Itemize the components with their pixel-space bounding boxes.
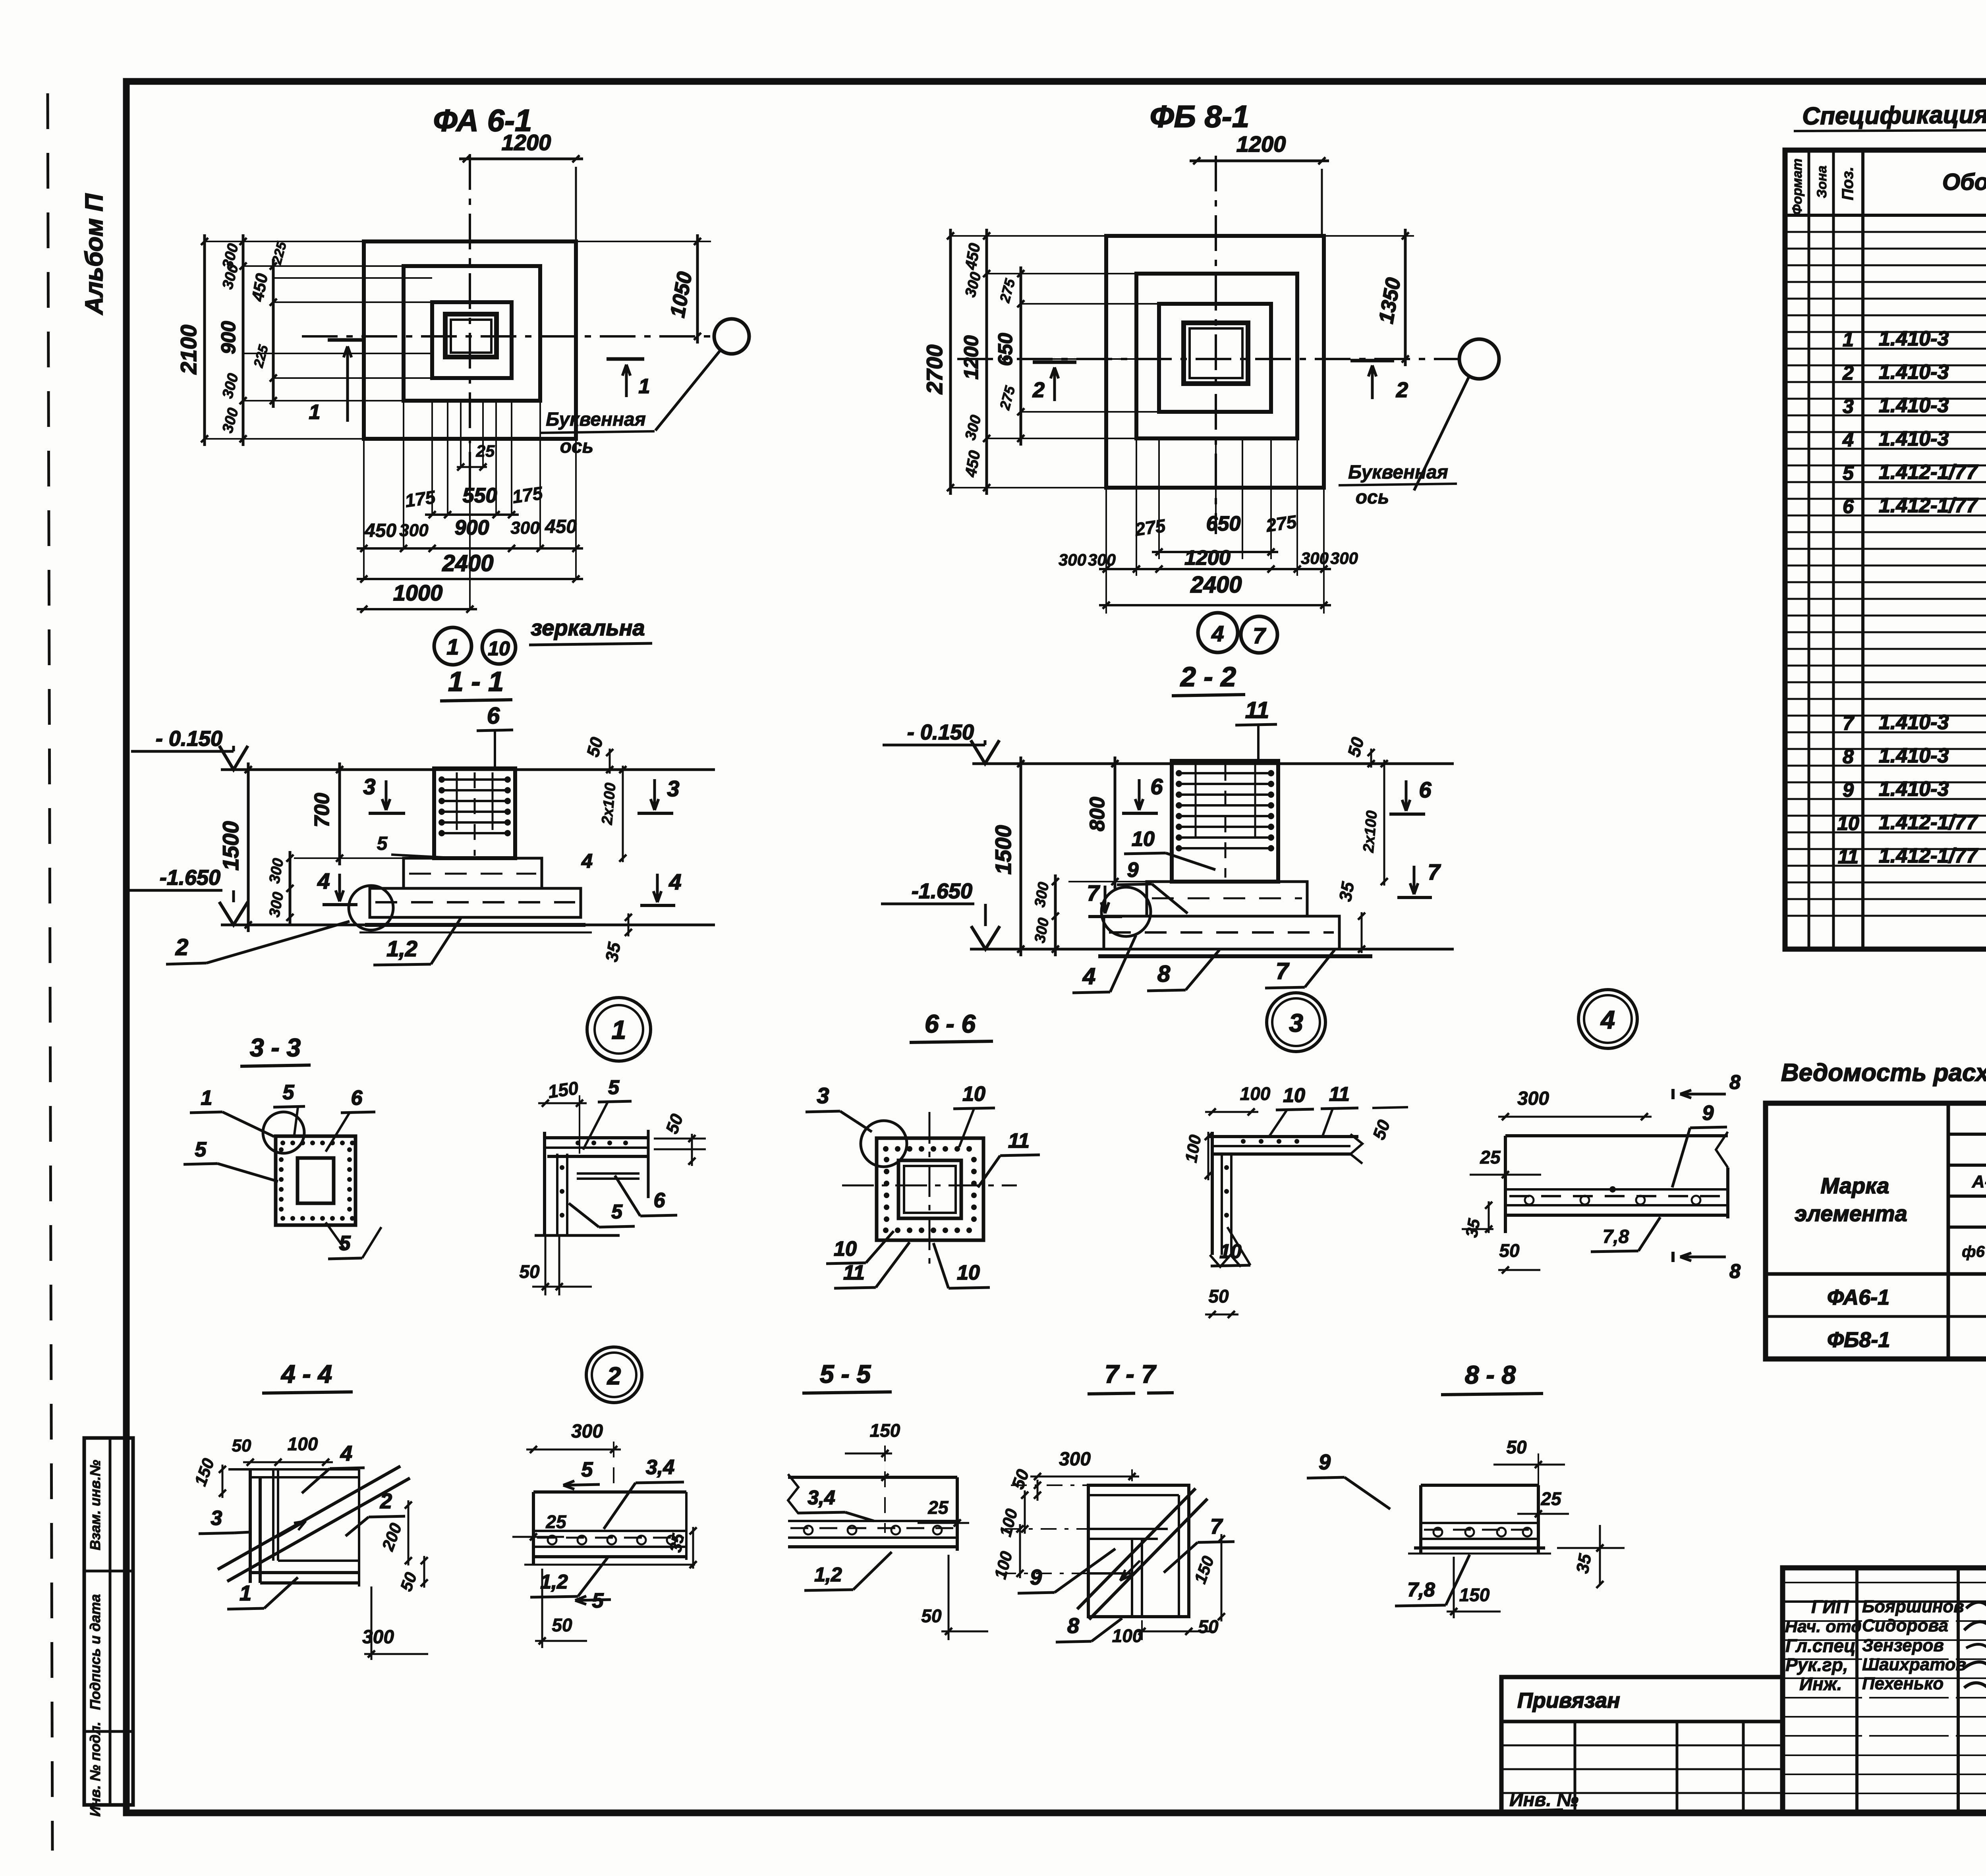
svg-text:2 - 2: 2 - 2	[1180, 661, 1236, 692]
svg-text:25: 25	[1540, 1488, 1562, 1509]
detail 4 section mark 8 bottom	[1671, 1252, 1675, 1262]
svg-text:Марка: Марка	[1821, 1173, 1889, 1198]
svg-text:100: 100	[1240, 1083, 1271, 1104]
svg-text:4 - 4: 4 - 4	[280, 1360, 332, 1388]
svg-text:50: 50	[519, 1261, 540, 1282]
section 1-1 dim 1500	[247, 762, 250, 932]
signature table row lines	[1783, 1582, 1986, 1583]
svg-text:Шаихратов: Шаихратов	[1862, 1655, 1966, 1674]
plan FB8-1 left dim line 3	[1020, 266, 1022, 446]
plan FB8-1 dim 2700	[949, 229, 952, 495]
plan FA6-1 dim 1050 right	[576, 241, 711, 242]
svg-text:Рук.гр,: Рук.гр,	[1785, 1654, 1848, 1675]
plan FB8-1 section mark 2 right	[1350, 359, 1394, 363]
svg-text:Сидорова: Сидорова	[1862, 1616, 1948, 1635]
svg-text:1: 1	[309, 401, 321, 424]
section 2-2 detail circle	[1101, 887, 1151, 936]
svg-text:-1.650: -1.650	[912, 879, 972, 903]
signature scribble 5	[1964, 1683, 1986, 1694]
svg-text:1500: 1500	[218, 821, 243, 871]
steel table marka cell	[1947, 1103, 1950, 1359]
svg-text:1: 1	[201, 1087, 213, 1110]
detail 2 mesh circles	[548, 1536, 556, 1544]
svg-text:1200: 1200	[960, 335, 982, 379]
svg-text:10: 10	[1283, 1084, 1305, 1106]
plan FA6-1 left extension lines	[205, 241, 364, 242]
svg-text:450: 450	[364, 520, 396, 541]
svg-text:Взам. инв.№: Взам. инв.№	[87, 1460, 103, 1550]
svg-text:10: 10	[962, 1083, 985, 1106]
plan FA6-1 vertical axis	[469, 154, 471, 496]
svg-text:7 - 7: 7 - 7	[1105, 1360, 1157, 1388]
svg-text:50: 50	[1499, 1240, 1520, 1261]
svg-text:10: 10	[957, 1261, 980, 1284]
svg-text:11: 11	[843, 1261, 865, 1284]
section 4-4 mesh corner drawing	[249, 1469, 252, 1583]
svg-text:700: 700	[311, 793, 334, 828]
svg-text:50: 50	[552, 1615, 572, 1635]
svg-text:1.410-3: 1.410-3	[1879, 778, 1949, 801]
svg-text:2: 2	[1032, 378, 1045, 402]
section 8-8 slab drawing	[1421, 1484, 1538, 1487]
svg-text:6: 6	[1150, 774, 1163, 799]
svg-text:ФБ8-1: ФБ8-1	[1827, 1328, 1890, 1352]
svg-text:50: 50	[232, 1436, 251, 1455]
svg-text:ф6: ф6	[1962, 1243, 1985, 1260]
plan FA6-1 section mark 1 right	[607, 357, 644, 361]
detail 4 slab drawing	[1505, 1134, 1728, 1137]
svg-text:5: 5	[1843, 462, 1854, 484]
svg-text:1.410-3: 1.410-3	[1879, 394, 1949, 417]
svg-text:4: 4	[581, 850, 593, 872]
svg-text:2: 2	[1396, 378, 1408, 402]
signature table columns	[1855, 1568, 1858, 1813]
svg-text:Формат: Формат	[1790, 158, 1805, 215]
svg-text:1,2: 1,2	[386, 936, 417, 961]
svg-text:Гл.спец: Гл.спец	[1785, 1635, 1856, 1656]
svg-text:7: 7	[1843, 712, 1855, 734]
section 4-4 diagonal bars	[218, 1466, 400, 1569]
svg-text:35: 35	[1573, 1552, 1595, 1575]
svg-text:800: 800	[1086, 797, 1109, 832]
plan FA6-1 axis circle 1	[434, 627, 471, 665]
svg-text:5 - 5: 5 - 5	[820, 1360, 871, 1388]
detail 1 rebar dots	[576, 1141, 580, 1145]
svg-text:3: 3	[1289, 1009, 1303, 1037]
svg-text:3,4: 3,4	[646, 1456, 674, 1479]
plan FB8-1 dim 1350 right	[1404, 229, 1407, 366]
svg-text:3,4: 3,4	[808, 1486, 835, 1509]
signature scribble 4	[1964, 1661, 1986, 1672]
svg-text:3: 3	[1843, 395, 1854, 417]
svg-text:Инж.: Инж.	[1799, 1673, 1842, 1694]
svg-text:4: 4	[340, 1442, 352, 1465]
svg-text:1 - 1: 1 - 1	[448, 666, 504, 697]
plan FB8-1 axis circle	[1459, 339, 1499, 379]
plan FB8-1 column	[1184, 323, 1248, 384]
svg-text:35: 35	[602, 941, 624, 963]
svg-text:элемента: элемента	[1795, 1201, 1907, 1226]
svg-text:25: 25	[476, 442, 495, 460]
spec table header row line	[1785, 214, 1986, 217]
section 1-1 bottom slab	[370, 888, 581, 917]
svg-text:2400: 2400	[1190, 572, 1242, 598]
svg-text:9: 9	[1127, 859, 1139, 882]
svg-text:7: 7	[1253, 623, 1266, 648]
svg-text:175: 175	[404, 486, 437, 511]
svg-text:5: 5	[608, 1076, 620, 1098]
svg-text:1500: 1500	[991, 825, 1016, 875]
svg-text:100: 100	[288, 1434, 318, 1454]
svg-text:Бояршинов: Бояршинов	[1862, 1597, 1964, 1616]
svg-text:2: 2	[607, 1363, 621, 1390]
section 2-2 bottom slab	[1104, 916, 1339, 949]
spec table outer border	[1785, 150, 1986, 949]
svg-text:25: 25	[545, 1511, 567, 1532]
plan FA6-1 section mark 1 left	[328, 338, 365, 342]
detail 1 drawing wall lines	[543, 1132, 546, 1235]
svg-text:11: 11	[1245, 697, 1269, 723]
svg-text:5: 5	[195, 1138, 207, 1161]
svg-text:1200: 1200	[1184, 546, 1231, 569]
svg-text:11: 11	[1008, 1129, 1030, 1152]
svg-text:3: 3	[363, 774, 375, 799]
section 1-1 dims 300 300	[289, 851, 292, 924]
svg-text:650: 650	[994, 333, 1016, 366]
plan FB8-1 extension lines below	[1105, 488, 1107, 614]
svg-text:9: 9	[1319, 1450, 1331, 1474]
binding edge dashed line left	[48, 93, 52, 1851]
svg-text:25: 25	[1480, 1147, 1501, 1168]
detail 2 bubble	[586, 1347, 642, 1403]
svg-text:4: 4	[668, 869, 681, 894]
svg-text:Буквенная: Буквенная	[546, 409, 646, 430]
section 6-6 rebar dots	[883, 1146, 889, 1152]
svg-text:300: 300	[1088, 550, 1116, 569]
svg-text:150: 150	[547, 1077, 580, 1102]
svg-text:6 - 6: 6 - 6	[925, 1009, 976, 1038]
signature scribble 3	[1966, 1644, 1986, 1652]
svg-text:9: 9	[1702, 1102, 1714, 1125]
svg-text:1: 1	[639, 375, 650, 398]
svg-text:900: 900	[217, 321, 240, 354]
svg-text:1.412-1/77: 1.412-1/77	[1879, 494, 1978, 517]
section 6-6 corner detail circle	[861, 1121, 907, 1167]
svg-text:300: 300	[1059, 550, 1086, 569]
svg-text:300: 300	[1301, 549, 1329, 567]
plan FB8-1 axis circle 7	[1241, 616, 1277, 653]
svg-text:900: 900	[455, 516, 489, 539]
plan FB8-1 middle square	[1136, 274, 1297, 438]
svg-text:Пехенько: Пехенько	[1862, 1674, 1943, 1693]
svg-text:1.412-1/77: 1.412-1/77	[1879, 844, 1978, 867]
plan FA6-1 axis leader line	[655, 351, 720, 430]
plan FB8-1 axis circle 4	[1198, 613, 1238, 652]
section 3-3 rebar dots	[280, 1141, 285, 1145]
svg-text:2400: 2400	[442, 550, 493, 576]
signature scribble 2	[1964, 1619, 1986, 1633]
svg-text:7,8: 7,8	[1603, 1226, 1629, 1247]
plan FA6-1 dim 2100 left	[203, 234, 206, 446]
section 2-2 dim 800	[1114, 757, 1117, 889]
detail 3 bubble	[1267, 993, 1325, 1052]
section 5-5 mesh circles	[804, 1526, 813, 1534]
plan FA6-1 column	[445, 314, 496, 357]
svg-text:7,8: 7,8	[1407, 1579, 1435, 1601]
svg-text:4: 4	[1842, 428, 1854, 451]
svg-text:100: 100	[1112, 1625, 1143, 1646]
detail 4 section mark 8 top	[1671, 1089, 1675, 1099]
svg-text:1.410-3: 1.410-3	[1879, 327, 1949, 350]
svg-text:550: 550	[463, 484, 497, 507]
svg-text:3: 3	[817, 1083, 829, 1108]
section 6-6 square	[877, 1138, 983, 1240]
svg-text:10: 10	[1837, 812, 1859, 834]
svg-text:275: 275	[1133, 515, 1167, 540]
section 2-2 subbase line	[1098, 954, 1372, 958]
detail 4 bubble	[1578, 990, 1637, 1048]
svg-text:300: 300	[362, 1627, 394, 1648]
svg-text:5: 5	[582, 1458, 593, 1481]
svg-text:10: 10	[1132, 828, 1155, 851]
svg-text:ФА6-1: ФА6-1	[1827, 1285, 1889, 1309]
svg-text:8: 8	[1729, 1260, 1741, 1282]
section 1-1 column mesh	[442, 778, 508, 781]
title block outer border	[1783, 1568, 1986, 1813]
svg-text:7: 7	[1428, 859, 1441, 884]
svg-text:300: 300	[571, 1421, 603, 1442]
detail 3 rebar dots	[1241, 1139, 1246, 1144]
svg-text:зеркальна: зеркальна	[531, 615, 645, 640]
svg-text:Привязан: Привязан	[1517, 1689, 1620, 1712]
svg-text:2: 2	[175, 934, 188, 960]
svg-text:1,2: 1,2	[540, 1571, 568, 1593]
section 3-3 square	[276, 1136, 355, 1225]
detail 3 wall lines	[1211, 1132, 1214, 1255]
steel table outer border	[1766, 1103, 1986, 1359]
plan FB8-1 horizontal axis	[957, 358, 1459, 360]
svg-text:Поз.: Поз.	[1839, 167, 1857, 201]
svg-text:1.410-3: 1.410-3	[1879, 711, 1949, 734]
svg-text:300: 300	[1517, 1088, 1549, 1109]
svg-text:6: 6	[1419, 777, 1432, 802]
plan FA6-1 axis circle	[714, 319, 749, 354]
svg-text:9: 9	[1030, 1565, 1042, 1589]
svg-text:1: 1	[612, 1015, 626, 1044]
section 1-1 ground line	[221, 768, 715, 771]
plan FA6-1 extension lines below	[363, 439, 365, 580]
svg-text:3: 3	[211, 1507, 222, 1530]
svg-text:- 0.150: - 0.150	[907, 720, 974, 744]
left stamp table	[84, 1438, 133, 1805]
svg-text:ФБ 8-1: ФБ 8-1	[1150, 99, 1250, 134]
svg-text:- 0.150: - 0.150	[156, 727, 222, 751]
svg-text:8: 8	[1067, 1614, 1079, 1638]
spec table thin row lines	[1785, 231, 1986, 233]
detail 1 slab right end bar	[647, 1130, 650, 1198]
svg-text:300: 300	[1059, 1449, 1091, 1470]
steel table header bottom line	[1766, 1272, 1986, 1276]
section 2-2 ground line	[972, 762, 1454, 765]
svg-text:2100: 2100	[176, 325, 201, 375]
plan FB8-1 section mark 2 left	[1033, 361, 1076, 364]
svg-text:300: 300	[1330, 549, 1358, 567]
signature scribble 1	[1966, 1598, 1986, 1609]
section 6-6 axes	[929, 1112, 931, 1267]
svg-text:7: 7	[1276, 958, 1290, 984]
svg-text:6: 6	[487, 703, 500, 729]
svg-text:5: 5	[283, 1081, 295, 1104]
section 7-7 mesh drawing	[1088, 1485, 1189, 1617]
plan FB8-1 vertical axis	[1215, 156, 1217, 534]
svg-text:450: 450	[545, 516, 577, 537]
section 2-2 dims 300 300	[1054, 874, 1057, 956]
svg-text:300: 300	[510, 518, 540, 538]
svg-text:Зензеров: Зензеров	[1862, 1636, 1944, 1655]
svg-text:1: 1	[1843, 328, 1854, 351]
svg-text:10: 10	[488, 637, 510, 660]
plan FA6-1 middle square	[404, 266, 540, 401]
section 2-2 column mesh	[1179, 772, 1271, 774]
svg-text:6: 6	[1843, 495, 1854, 517]
section 2-2 step outline	[1147, 882, 1307, 916]
svg-text:300: 300	[399, 521, 429, 540]
svg-text:Подпись и дата: Подпись и дата	[87, 1594, 103, 1710]
svg-text:Альбом П: Альбом П	[81, 193, 108, 316]
svg-text:1.412-1/77: 1.412-1/77	[1879, 811, 1978, 834]
svg-text:8 - 8: 8 - 8	[1465, 1361, 1516, 1389]
svg-text:4: 4	[1082, 963, 1095, 989]
plan FA6-1 outer square	[364, 241, 576, 439]
svg-text:8: 8	[1157, 961, 1171, 987]
spec table column lines	[1808, 150, 1810, 949]
section 1-1 subbase line	[365, 923, 585, 927]
svg-text:4: 4	[1211, 621, 1224, 646]
section 2-2 column	[1172, 761, 1278, 882]
plan FA6-1 horizontal axis	[302, 335, 714, 338]
svg-text:3 - 3: 3 - 3	[250, 1033, 301, 1062]
svg-text:1.410-3: 1.410-3	[1879, 427, 1949, 450]
plan FB8-1 outer rect	[1106, 236, 1324, 488]
section 5-5 slab drawing	[788, 1476, 957, 1479]
svg-text:25: 25	[927, 1497, 949, 1518]
svg-text:ось: ось	[1356, 487, 1389, 508]
section 2-2 base line	[970, 948, 1454, 951]
svg-text:4: 4	[317, 869, 330, 894]
svg-text:А-I Вст3пс3: А-I Вст3пс3	[1972, 1172, 1986, 1191]
svg-text:4: 4	[1600, 1006, 1615, 1034]
detail 4 mesh circles	[1525, 1196, 1534, 1204]
section 2-2 dim 1500	[1020, 757, 1022, 956]
section 7-7 diagonal bars	[1077, 1488, 1196, 1609]
svg-text:-1.650: -1.650	[160, 866, 220, 890]
svg-text:1.412-1/77: 1.412-1/77	[1879, 461, 1978, 484]
svg-text:150: 150	[870, 1420, 900, 1441]
svg-text:1.410-3: 1.410-3	[1879, 361, 1949, 384]
svg-text:ГИП: ГИП	[1811, 1596, 1849, 1617]
svg-text:6: 6	[654, 1189, 666, 1212]
svg-text:2: 2	[380, 1489, 392, 1513]
svg-text:7: 7	[1087, 880, 1100, 905]
plan FA6-1 left dim line 2	[242, 234, 245, 446]
svg-text:Буквенная: Буквенная	[1348, 462, 1448, 483]
svg-text:Обозначение: Обозначение	[1942, 169, 1986, 195]
detail 1 bubble	[587, 998, 651, 1061]
svg-text:3: 3	[667, 776, 679, 801]
section 1-1 base line	[221, 924, 715, 926]
plan FA6-1 axis circle 10	[482, 631, 516, 664]
svg-text:35: 35	[1335, 880, 1358, 903]
svg-text:1200: 1200	[1236, 131, 1286, 156]
detail 1 bottom end line	[535, 1234, 620, 1237]
section 1-1 detail circle	[349, 886, 393, 930]
svg-text:275: 275	[1264, 511, 1298, 536]
svg-text:50: 50	[1506, 1437, 1527, 1457]
svg-text:150: 150	[1459, 1585, 1490, 1605]
svg-text:1.410-3: 1.410-3	[1879, 744, 1949, 767]
svg-text:2: 2	[1842, 362, 1854, 384]
svg-text:10: 10	[834, 1237, 857, 1260]
detail 2 slab drawing	[533, 1490, 686, 1494]
svg-text:6: 6	[351, 1087, 363, 1110]
plan FA6-1 inner square	[432, 302, 512, 378]
svg-text:1: 1	[240, 1581, 251, 1605]
svg-text:50: 50	[1198, 1616, 1219, 1637]
plan FB8-1 axis leader	[1414, 375, 1470, 490]
plan FB8-1 inner square	[1159, 304, 1271, 412]
svg-text:8: 8	[1729, 1071, 1741, 1093]
svg-text:5: 5	[611, 1200, 623, 1223]
svg-text:175: 175	[511, 483, 545, 507]
section 8-8 mesh circles	[1433, 1528, 1442, 1536]
plan FB8-1 left dim line 2	[985, 229, 988, 495]
svg-text:50: 50	[1208, 1286, 1229, 1307]
svg-text:Зона: Зона	[1814, 166, 1830, 198]
section 3-3 corner detail circle	[263, 1112, 304, 1153]
section 1-1 dim 700	[338, 762, 341, 865]
svg-text:11: 11	[1838, 845, 1858, 868]
svg-text:1000: 1000	[393, 580, 443, 605]
plan FA6-1 left dim line 3	[272, 259, 275, 408]
svg-text:9: 9	[1843, 779, 1854, 801]
plan FB8-1 left extension lines	[950, 235, 1106, 237]
svg-text:50: 50	[921, 1606, 942, 1626]
svg-text:Ведомость расхода стали на: Ведомость расхода стали на элемент, кг	[1781, 1059, 1986, 1087]
svg-text:35: 35	[666, 1532, 688, 1554]
svg-text:650: 650	[1206, 512, 1241, 535]
svg-text:1,2: 1,2	[814, 1563, 842, 1586]
svg-text:Инв. № подл.: Инв. № подл.	[87, 1722, 103, 1816]
svg-text:8: 8	[1843, 745, 1854, 768]
svg-text:35: 35	[1462, 1217, 1484, 1239]
detail 1 drawing slab lines	[545, 1136, 648, 1139]
svg-text:Нач. отд: Нач. отд	[1785, 1617, 1862, 1636]
title block privyazan table	[1501, 1677, 1783, 1813]
svg-text:1200: 1200	[502, 130, 551, 155]
detail 3 drawing slab lines	[1207, 1135, 1358, 1138]
svg-text:1: 1	[446, 634, 459, 659]
svg-text:11: 11	[1329, 1083, 1350, 1105]
svg-text:2700: 2700	[922, 345, 947, 395]
section 1-1 column	[434, 768, 515, 858]
section 1-1 step outline	[404, 858, 542, 888]
svg-text:Инв. №: Инв. №	[1509, 1789, 1578, 1810]
svg-text:5: 5	[377, 833, 388, 854]
